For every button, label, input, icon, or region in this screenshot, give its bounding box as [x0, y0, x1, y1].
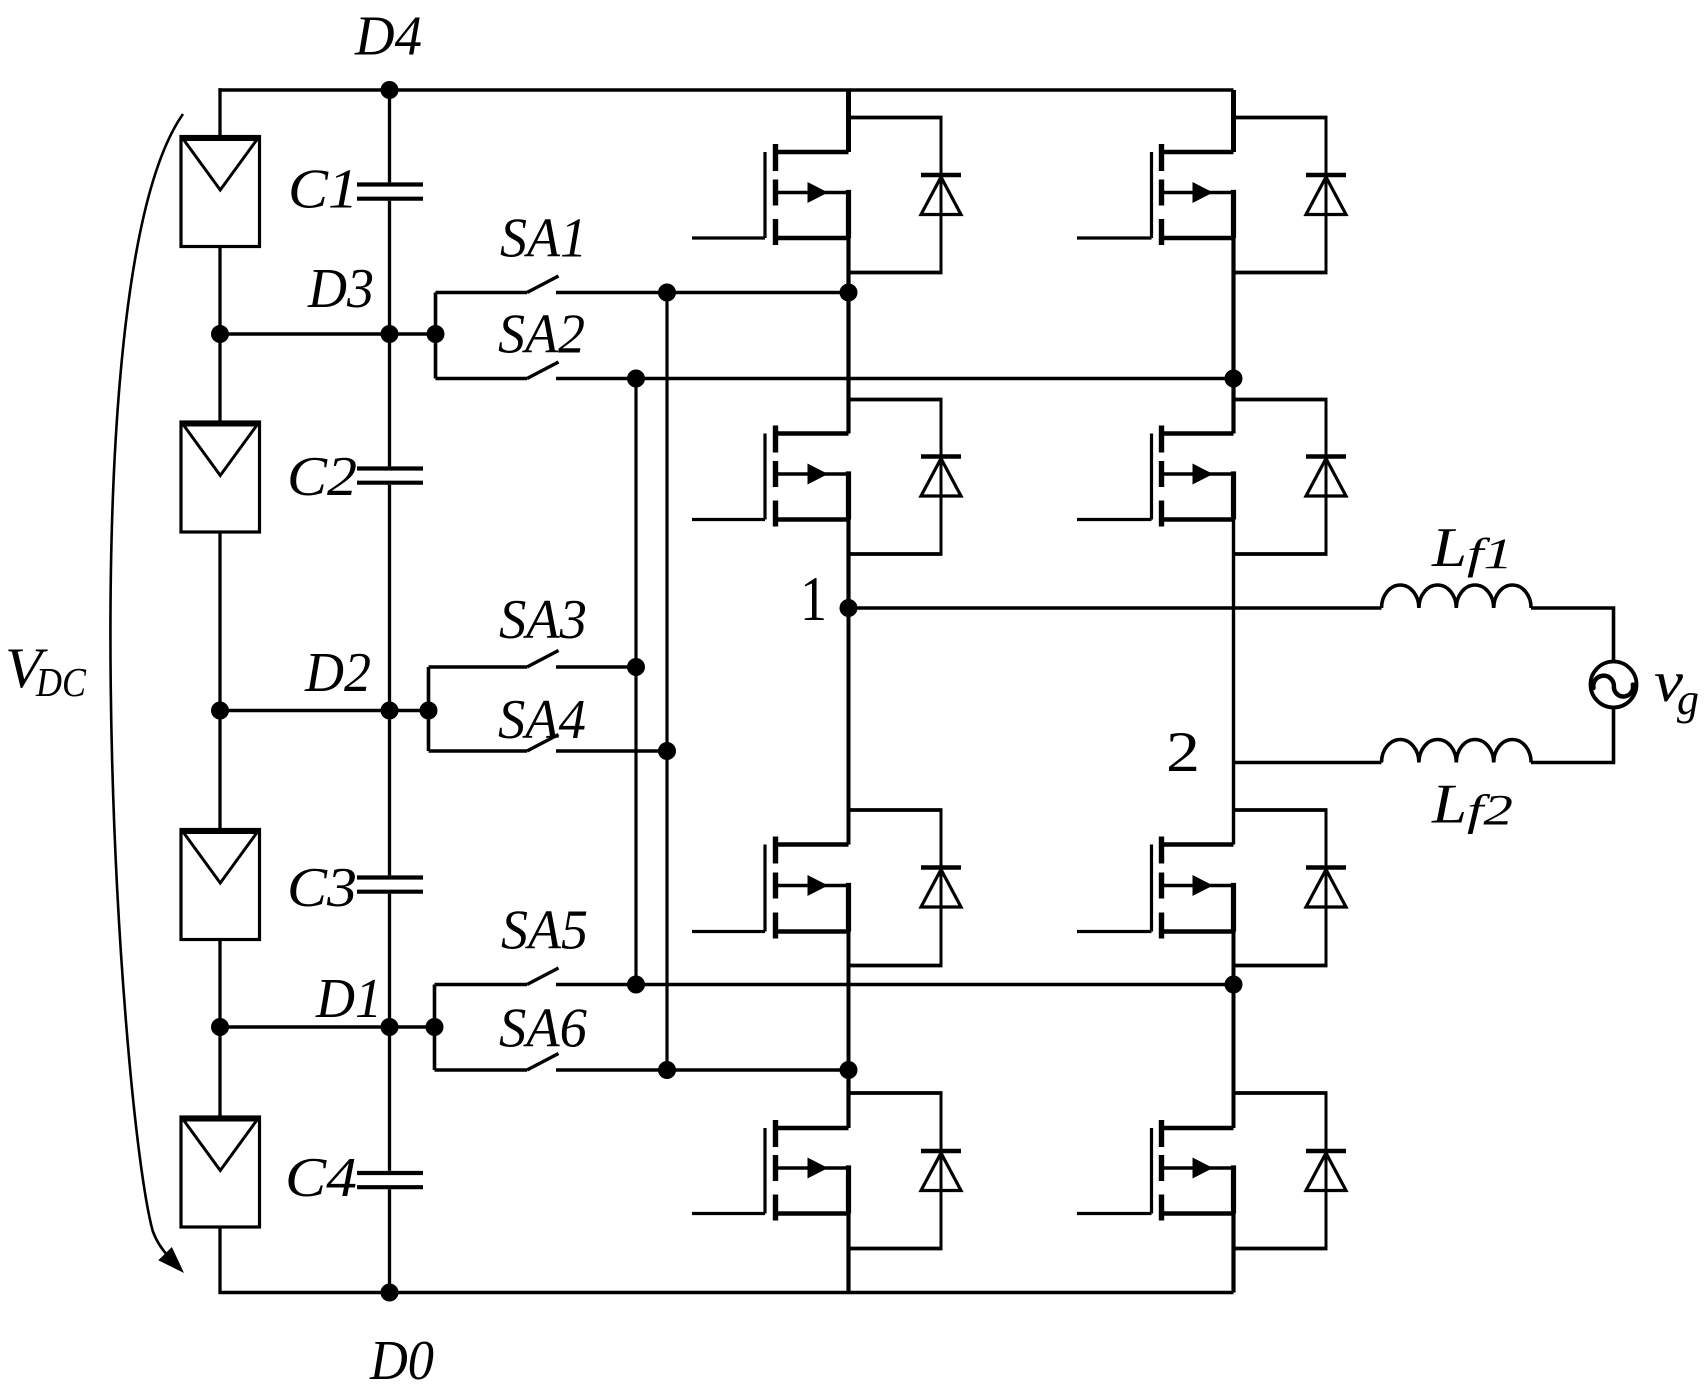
wire left bus bottom segment [218, 1227, 221, 1293]
svg-text:SA5: SA5 [501, 900, 588, 962]
wire net D1 [220, 1025, 435, 1029]
node SA2 junction on rail A [627, 370, 645, 388]
node SA6 junction on rail B [658, 1061, 676, 1079]
capacitor C4 [357, 1173, 423, 1187]
switch SA1 pole wire [436, 291, 528, 295]
wire net D3 [220, 332, 436, 336]
svg-text:SA3: SA3 [499, 589, 587, 651]
wire right leg source run row3 through SA5 node to row4 [1232, 932, 1236, 1129]
svg-text:D4: D4 [354, 6, 422, 68]
svg-text:L: L [1431, 517, 1467, 579]
transistor Q2 (MOSFET) [692, 426, 849, 527]
switch SA6 throw wire [556, 1068, 849, 1072]
wire right leg source run row1 to SA2 node [1231, 238, 1235, 379]
wire left leg source run row4 to bottom bus [846, 1214, 850, 1293]
node D0 junction dot [381, 1284, 399, 1302]
inductor Lf2 [1382, 739, 1532, 762]
node D3 dot on capacitor bus [381, 325, 399, 343]
svg-text:SA4: SA4 [498, 689, 586, 751]
switch SA2 throw wire [556, 377, 1234, 381]
switch SA6 blade [527, 1054, 559, 1071]
PV panel PV4 [181, 1117, 260, 1227]
switch SA4 throw wire [556, 749, 667, 753]
capacitor C3 [357, 878, 423, 892]
switch SA3/SA4 common bar (net D2) [427, 667, 431, 751]
wire node 2 to Lf2 [1234, 761, 1382, 765]
svg-text:C4: C4 [285, 1147, 357, 1209]
body diode of Q2 [849, 400, 962, 555]
node SA4 junction on rail B [658, 742, 676, 760]
node D1 dot on capacitor bus [381, 1018, 399, 1036]
node SA3 junction on rail A [627, 658, 645, 676]
svg-text:D2: D2 [304, 642, 371, 704]
switch SA5 blade [527, 968, 559, 985]
svg-text:1: 1 [800, 563, 827, 634]
switch SA3 throw wire [556, 665, 636, 669]
svg-text:L: L [1431, 774, 1467, 836]
node SA2 dot on right leg [1225, 370, 1243, 388]
wire left leg source run row3 to SA6 node [847, 932, 851, 1071]
svg-text:g: g [1677, 675, 1699, 724]
node 1 junction dot [840, 599, 858, 617]
switch SA4 pole wire [429, 749, 528, 753]
node SA5 dot on right leg [1225, 976, 1243, 994]
wire left bus segment below PV3 [218, 940, 221, 1120]
node D2 dot on capacitor bus [381, 702, 399, 720]
body diode of Q6 [1234, 400, 1347, 555]
PV panel PV3 [181, 830, 260, 940]
AC source vg sine [1593, 676, 1633, 697]
wire top bus (net D4) [218, 88, 1233, 92]
wire left bus segment below PV2 [218, 532, 221, 832]
wire left leg drain run node 1 to row3 [847, 608, 851, 845]
svg-text:C3: C3 [287, 857, 357, 919]
wire right leg source run row4 to bottom bus [1231, 1214, 1235, 1293]
svg-text:2: 2 [1166, 721, 1200, 784]
capacitor C2 [357, 469, 423, 483]
body diode of Q5 [1234, 118, 1347, 273]
svg-text:f1: f1 [1467, 531, 1513, 578]
switch SA3 pole wire [429, 665, 528, 669]
body diode of Q1 [849, 118, 962, 273]
node D2 dot on left bus [211, 702, 229, 720]
PV panel PV2 [181, 422, 260, 532]
wire net D2 [220, 709, 429, 713]
node D2 dot at switch bar [420, 702, 438, 720]
svg-text:f2: f2 [1467, 788, 1513, 835]
node SA6 dot on left leg [840, 1061, 858, 1079]
wire left leg drain stub row1 [846, 90, 851, 152]
transistor Q1 (MOSFET) [692, 144, 849, 245]
wire capacitor bus segment 4 [388, 894, 391, 1171]
switch SA1/SA2 common bar (net D3) [434, 293, 438, 379]
node SA1 junction on rail B [658, 284, 676, 302]
svg-text:DC: DC [35, 659, 86, 705]
node SA1 dot on left leg [840, 284, 858, 302]
transistor Q5 (MOSFET) [1077, 144, 1234, 245]
wire Lf1 to vg [1531, 608, 1614, 662]
switch SA1 blade [527, 276, 559, 293]
switch SA3 blade [527, 651, 559, 668]
switch SA5 throw wire [556, 983, 1234, 987]
svg-text:SA2: SA2 [498, 304, 585, 366]
VDC measurement arc [110, 114, 183, 1258]
transistor Q8 (MOSFET) [1077, 1120, 1234, 1221]
wire capacitor bus segment 1 [388, 90, 391, 182]
transistor Q7 (MOSFET) [1077, 837, 1234, 939]
switch SA2 pole wire [436, 377, 528, 381]
node D1 dot at switch bar [426, 1018, 444, 1036]
svg-text:C1: C1 [288, 159, 358, 221]
switch SA1 throw wire [556, 291, 849, 295]
svg-text:SA6: SA6 [499, 998, 587, 1060]
VDC arrowhead [158, 1247, 184, 1273]
node D3 dot on left bus [211, 325, 229, 343]
switch SA5/SA6 common bar (net D1) [433, 985, 437, 1071]
wire right leg drain run SA2 node to row2 [1231, 379, 1235, 434]
svg-text:D1: D1 [315, 968, 382, 1030]
node SA5 junction on rail A [627, 976, 645, 994]
wire right leg source run row2 through node 2 to row3 [1232, 520, 1235, 845]
wire node 1 to Lf1 [849, 606, 1382, 610]
wire left bus segment below PV1 [218, 247, 221, 425]
body diode of Q7 [1234, 810, 1347, 966]
transistor Q6 (MOSFET) [1077, 426, 1234, 527]
wire right leg drain stub row1 [1231, 90, 1236, 152]
switch SA2 blade [527, 362, 559, 379]
wire left bus top segment [218, 88, 221, 138]
wire rail B (SA1-SA4-SA6) [665, 293, 668, 1071]
node D4 junction dot [381, 81, 399, 99]
body diode of Q4 [849, 1093, 962, 1249]
svg-text:C2: C2 [287, 446, 357, 508]
wire left leg source run row2 to node 1 [846, 520, 850, 609]
inductor Lf1 [1382, 585, 1532, 608]
transistor Q4 (MOSFET) [692, 1120, 849, 1221]
transistor Q3 (MOSFET) [692, 837, 849, 939]
wire capacitor bus segment 5 [388, 1189, 391, 1292]
AC source vg circle [1591, 662, 1637, 708]
PV panel PV1 [181, 137, 260, 247]
wire capacitor bus segment 3 [388, 485, 391, 876]
body diode of Q3 [849, 810, 962, 966]
switch SA4 blade [527, 735, 559, 752]
svg-text:D3: D3 [307, 258, 374, 320]
switch SA5 pole wire [435, 983, 528, 987]
node D1 dot on left bus [211, 1018, 229, 1036]
wire left leg drain run SA6 node to row4 [846, 1070, 850, 1128]
svg-text:SA1: SA1 [500, 208, 587, 270]
wire rail A (SA2-SA3-SA5) [634, 379, 637, 985]
switch SA6 pole wire [435, 1068, 528, 1072]
capacitor C1 [357, 185, 423, 199]
wire left leg drain run SA1 node to row2 [846, 293, 850, 434]
wire bottom bus (net D0) [218, 1291, 1233, 1295]
wire vg to Lf2 [1531, 707, 1614, 763]
wire capacitor bus segment 2 [388, 201, 391, 467]
svg-text:D0: D0 [369, 1330, 434, 1392]
body diode of Q8 [1234, 1093, 1347, 1249]
node D3 dot at switch bar [427, 325, 445, 343]
wire left leg source run row1 to SA1 node [846, 238, 850, 293]
